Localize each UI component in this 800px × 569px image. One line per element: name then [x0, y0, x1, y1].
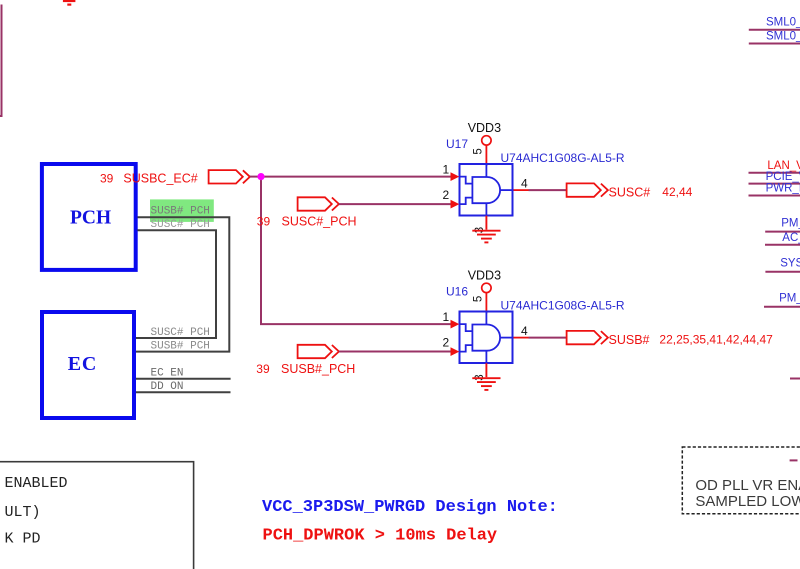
svg-text:SUSC# PCH: SUSC# PCH	[151, 327, 210, 339]
off-page flag SUSC# out	[567, 183, 608, 196]
svg-text:SML0_A: SML0_A	[766, 17, 800, 29]
wire net SUSC#_PCH (PCH to EC, gray)	[136, 230, 216, 338]
wire output red stub (U16)	[514, 337, 529, 339]
wire VDD3 stub red (U17)	[485, 145, 487, 166]
svg-text:4: 4	[521, 324, 528, 338]
wire PM row	[765, 231, 800, 233]
svg-text:ENABLED: ENABLED	[5, 475, 68, 492]
gate body box (U17)	[460, 164, 513, 216]
svg-text:PCH_DPWROK > 10ms Delay: PCH_DPWROK > 10ms Delay	[263, 526, 498, 545]
pin 1 notch (U16)	[460, 324, 473, 331]
svg-text:PWR_B: PWR_B	[766, 182, 800, 194]
svg-text:2: 2	[443, 336, 450, 350]
svg-text:OD PLL VR ENABLED: OD PLL VR ENABLED	[695, 477, 800, 494]
EC block U-EC	[42, 312, 134, 418]
green highlight on SUSB#_PCH pin label	[150, 199, 214, 222]
svg-text:22,25,35,41,42,44,47: 22,25,35,41,42,44,47	[659, 333, 773, 347]
svg-text:SUSC# PCH: SUSC# PCH	[151, 219, 210, 231]
pin 2 notch (U17)	[460, 198, 473, 205]
wire net SUSB#_PCH (PCH to EC, gray)	[136, 217, 229, 351]
pin 1 notch (U17)	[460, 177, 473, 184]
wire SML0 row1	[749, 29, 800, 31]
wire output inside blue (U16)	[500, 337, 513, 339]
wire gnd inside blue (U16)	[485, 351, 487, 364]
wire right-edge stub	[790, 378, 800, 380]
svg-text:4: 4	[521, 177, 528, 191]
wire stub inside dashed box	[790, 459, 798, 461]
wire SYS row	[765, 271, 800, 273]
off-page flag SUSC#_PCH	[298, 197, 339, 210]
AND gate shape (U17)	[472, 177, 500, 203]
AND gate shape (U16)	[472, 325, 500, 351]
wire left-edge vertical	[0, 5, 3, 117]
wire U16 output to flag	[529, 337, 567, 339]
svg-text:EC: EC	[68, 353, 97, 375]
svg-text:1: 1	[443, 310, 450, 324]
note box bottom-left	[0, 462, 194, 569]
svg-text:SUSC#_PCH: SUSC#_PCH	[282, 215, 357, 229]
svg-text:SUSB# PCH: SUSB# PCH	[151, 341, 210, 353]
svg-text:SYS_: SYS_	[780, 258, 800, 270]
off-page flag SUSB# out	[567, 331, 608, 344]
wire PCIE_	[749, 183, 800, 185]
wire AC row	[765, 244, 800, 246]
svg-text:39: 39	[257, 214, 271, 228]
wire U17 output to flag	[529, 189, 567, 191]
gate body box (U16)	[460, 312, 513, 364]
svg-text:U74AHC1G08G-AL5-R: U74AHC1G08G-AL5-R	[501, 151, 625, 165]
wire DD ON stub	[136, 391, 231, 393]
wire SML0 row2	[749, 43, 800, 45]
ground symbol (U16)	[472, 363, 500, 390]
svg-text:DD ON: DD ON	[151, 381, 184, 393]
svg-text:U16: U16	[446, 285, 468, 299]
ground top-edge partial symbol	[63, 1, 76, 5]
svg-text:1: 1	[443, 163, 450, 177]
pin 1 arrow (U17)	[451, 172, 460, 181]
ground symbol (U17)	[472, 216, 500, 243]
svg-text:42,44: 42,44	[662, 185, 692, 199]
svg-text:PM_B: PM_B	[779, 293, 800, 305]
svg-text:VDD3: VDD3	[468, 269, 501, 283]
svg-text:K PD: K PD	[5, 531, 41, 548]
dashed note box bottom-right	[682, 447, 800, 514]
wire output red stub (U17)	[514, 189, 529, 191]
svg-text:SAMPLED LOW AT: SAMPLED LOW AT	[695, 493, 800, 510]
wire vdd inside blue (U16)	[485, 312, 487, 325]
svg-text:SUSB#: SUSB#	[609, 333, 650, 347]
wire SUSC#_PCH to U17 pin2	[339, 203, 453, 205]
svg-text:5: 5	[473, 148, 485, 154]
PCH block U-PCH	[42, 164, 136, 270]
wire gnd inside blue (U17)	[485, 203, 487, 216]
svg-text:SUSB# PCH: SUSB# PCH	[151, 206, 210, 218]
junction node dot	[257, 173, 264, 180]
op-amp U16 AND gate group	[443, 269, 625, 390]
svg-text:2: 2	[443, 188, 450, 202]
power VDD3 bubble (U17)	[482, 136, 491, 145]
svg-text:VDD3: VDD3	[468, 121, 501, 135]
wire PWR_	[749, 195, 800, 197]
power VDD3 bubble (U16)	[482, 283, 491, 292]
wire SUSB#_PCH to U16 pin2	[339, 351, 453, 353]
pin 2 arrow (U16)	[451, 347, 460, 356]
svg-text:39: 39	[256, 362, 270, 376]
wire PM_B row	[764, 306, 800, 308]
svg-text:PM_S: PM_S	[781, 218, 800, 230]
op-amp U17 AND gate group	[443, 121, 625, 242]
wire flag to junction	[250, 176, 261, 178]
svg-text:VCC_3P3DSW_PWRGD Design Note:: VCC_3P3DSW_PWRGD Design Note:	[262, 498, 558, 517]
svg-text:SUSB#_PCH: SUSB#_PCH	[281, 362, 355, 376]
wire LAN_V	[749, 172, 800, 174]
svg-text:SML0_A: SML0_A	[766, 31, 800, 43]
svg-text:SUSC#: SUSC#	[609, 185, 651, 199]
svg-text:U17: U17	[446, 137, 468, 151]
pin 2 notch (U16)	[460, 345, 473, 352]
svg-text:U74AHC1G08G-AL5-R: U74AHC1G08G-AL5-R	[501, 298, 625, 312]
svg-text:ULT): ULT)	[5, 504, 41, 521]
svg-text:39: 39	[100, 171, 114, 185]
off-page flag SUSB#_PCH	[298, 345, 339, 358]
pin 1 arrow (U16)	[451, 320, 460, 329]
wire EC EN stub	[136, 378, 231, 380]
wire VDD3 stub red (U16)	[485, 293, 487, 314]
svg-text:PCH: PCH	[70, 207, 111, 228]
wire junction down to U16 pin1	[261, 177, 453, 325]
svg-text:PCIE_W: PCIE_W	[766, 171, 800, 183]
pin 2 arrow (U17)	[451, 200, 460, 209]
svg-text:5: 5	[473, 296, 485, 302]
off-page flag SUSBC_EC#	[209, 170, 250, 183]
svg-text:AC_P: AC_P	[782, 232, 800, 244]
svg-text:SUSBC_EC#: SUSBC_EC#	[123, 172, 197, 186]
wire junction to U17 pin1	[261, 176, 453, 178]
wire vdd inside blue (U17)	[485, 164, 487, 177]
wire output inside blue (U17)	[500, 189, 513, 191]
